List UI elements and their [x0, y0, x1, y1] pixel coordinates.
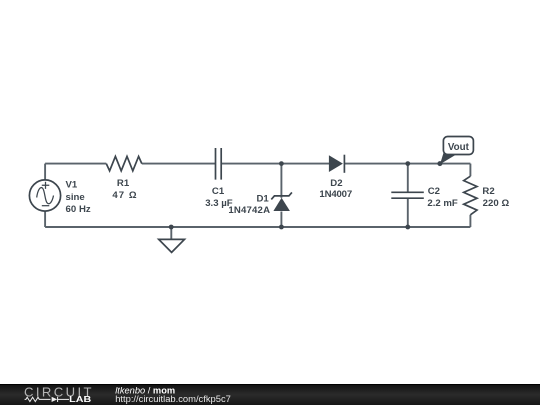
svg-text:47 Ω: 47 Ω — [112, 190, 136, 201]
svg-text:R2: R2 — [482, 186, 494, 197]
svg-text:1N4742A: 1N4742A — [228, 205, 270, 216]
svg-text:220 Ω: 220 Ω — [483, 198, 510, 209]
svg-text:R1: R1 — [117, 178, 130, 189]
svg-text:60 Hz: 60 Hz — [66, 204, 91, 215]
svg-text:C1: C1 — [212, 186, 225, 197]
svg-text:2.2 mF: 2.2 mF — [427, 198, 458, 209]
svg-text:D2: D2 — [330, 178, 342, 189]
svg-text:D1: D1 — [257, 194, 270, 205]
svg-text:Vout: Vout — [448, 142, 470, 153]
svg-text:V1: V1 — [66, 180, 78, 191]
svg-text:sine: sine — [66, 192, 85, 203]
svg-text:1N4007: 1N4007 — [319, 189, 352, 200]
svg-text:http://circuitlab.com/cfkp5c7: http://circuitlab.com/cfkp5c7 — [115, 393, 231, 404]
svg-text:LAB: LAB — [69, 395, 91, 404]
svg-text:C2: C2 — [428, 186, 440, 197]
